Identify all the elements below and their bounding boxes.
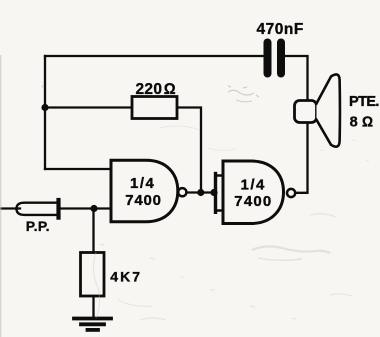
svg-text:P.P.: P.P.: [26, 218, 50, 234]
wire: gate U1 top input from rail: [45, 168, 111, 170]
wire: probe to gate U1 bottom input: [61, 207, 112, 209]
svg-text:4K7: 4K7: [110, 268, 142, 284]
nand gate U2 body (1/4 7400): [223, 161, 284, 224]
resistor R2 4K7 body: [81, 253, 105, 297]
svg-text:7400: 7400: [125, 192, 162, 209]
wire: top rail (left segment to C1): [45, 55, 264, 57]
node: junction U1 output / feedback from R1: [197, 189, 204, 196]
probe P.P. body: [17, 203, 59, 215]
svg-text:220Ω: 220Ω: [136, 81, 176, 98]
wire: top rail right segment, C1 to speaker top: [285, 56, 308, 101]
wire: input lead at left edge: [0, 207, 20, 209]
node: junction P.P. line and R2: [90, 205, 97, 212]
wire: junction to R1 left: [45, 106, 132, 108]
svg-text:8Ω: 8Ω: [350, 115, 374, 131]
probe P.P. tip bar: [56, 200, 60, 218]
svg-text:7400: 7400: [234, 193, 272, 210]
inverter bubble: U2 output: [287, 189, 295, 197]
svg-text:470nF: 470nF: [257, 21, 304, 38]
wire: U1 output to U2 input tie: [188, 191, 216, 193]
resistor R1 220 ohm body: [132, 97, 177, 119]
wire: U2 input tie bar and stubs: [216, 176, 224, 211]
wire: R1 right down to U1 output node: [177, 108, 201, 193]
capacitor C1 470nF right plate: [277, 39, 285, 78]
svg-text:PTE.: PTE.: [349, 94, 379, 110]
wire: junction down to R2 top: [92, 209, 94, 253]
node: junction of left rail and R1 branch: [41, 104, 48, 111]
node: junction at U2 input tie: [210, 189, 217, 196]
svg-text:1/4: 1/4: [130, 175, 155, 192]
inverter bubble: U1 output: [178, 188, 186, 196]
speaker SPK driver body: [295, 101, 317, 123]
svg-text:1/4: 1/4: [241, 177, 266, 194]
wire: left vertical rail: [44, 56, 46, 169]
capacitor C1 470nF left plate: [264, 39, 272, 78]
wire: U2 output up to speaker bottom: [296, 122, 307, 193]
wire: R2 bottom to ground: [92, 296, 94, 319]
ground symbol: [74, 319, 111, 330]
nand gate U1 body (1/4 7400): [111, 160, 178, 221]
speaker SPK horn: [317, 74, 340, 146]
